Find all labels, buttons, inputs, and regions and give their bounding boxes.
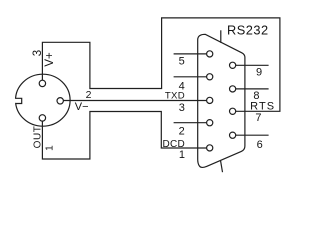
svg-text:OUT: OUT — [32, 125, 43, 148]
svg-text:V+: V+ — [44, 52, 56, 67]
svg-text:RS232: RS232 — [227, 22, 269, 37]
svg-text:TXD: TXD — [165, 91, 185, 102]
svg-text:1: 1 — [179, 149, 185, 161]
svg-text:3: 3 — [179, 102, 185, 114]
svg-text:5: 5 — [179, 56, 185, 68]
svg-text:2: 2 — [86, 89, 92, 101]
svg-text:9: 9 — [256, 67, 262, 79]
svg-text:V−: V− — [75, 101, 89, 113]
svg-text:RTS: RTS — [250, 101, 275, 113]
svg-text:7: 7 — [255, 112, 261, 124]
svg-text:1: 1 — [45, 145, 56, 151]
svg-text:6: 6 — [257, 139, 263, 151]
svg-text:2: 2 — [179, 125, 185, 137]
svg-text:DCD: DCD — [163, 139, 186, 150]
svg-text:3: 3 — [32, 50, 44, 56]
svg-text:8: 8 — [253, 90, 259, 102]
